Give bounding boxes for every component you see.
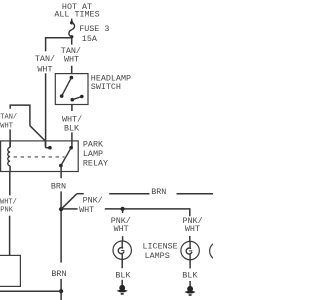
- label HEADLAMP SWITCH: [91, 73, 131, 92]
- label TAN/WHT left branch: [35, 54, 55, 74]
- fuse F3 symbol: [69, 21, 75, 38]
- label PNK/WHT feeder: [79, 196, 103, 215]
- wire BRN diagonal riser: [61, 194, 77, 210]
- svg-text:BLK: BLK: [115, 270, 131, 280]
- wire fuse to headlamp switch: [71, 38, 73, 74]
- wire bottom bus: [0, 290, 61, 292]
- label PARK LAMP RELAY: [83, 140, 108, 169]
- wire diagonal TAN/WHT to relay junction: [30, 126, 45, 141]
- svg-text:LICENSE: LICENSE: [143, 241, 178, 251]
- svg-text:WHT: WHT: [185, 224, 200, 234]
- wire PNK/WHT feeder: [63, 209, 190, 242]
- relay contact A from TAN/WHT: [45, 141, 51, 150]
- wire left lamp to ground BLK: [121, 259, 123, 268]
- node BRN junction: [59, 207, 63, 211]
- svg-text:BRN: BRN: [51, 269, 66, 279]
- label LICENSE LAMPS: [143, 241, 178, 261]
- wire BRN bus: [77, 193, 213, 195]
- label HOT AT ALL TIMES: [54, 2, 99, 20]
- connector box bottom left: [0, 255, 20, 286]
- svg-text:WHT: WHT: [64, 54, 79, 64]
- svg-text:WHT: WHT: [114, 224, 129, 234]
- label PNK/WHT left lamp: [111, 216, 131, 234]
- wire right lamp to ground BLK: [189, 260, 191, 269]
- headlamp switch box: [55, 74, 88, 105]
- wire coil output WHT/PNK: [9, 172, 11, 256]
- svg-text:TAN/: TAN/: [35, 54, 55, 64]
- svg-text:15A: 15A: [82, 34, 98, 44]
- svg-text:WHT/: WHT/: [0, 199, 17, 207]
- park lamp relay box: [1, 141, 79, 172]
- svg-text:WHT: WHT: [0, 123, 13, 131]
- node bottom junction: [59, 289, 63, 293]
- wire left lamp drop: [122, 209, 124, 241]
- svg-text:BRN: BRN: [151, 187, 166, 197]
- wire left TAN/WHT vertical lower: [45, 73, 47, 146]
- relay link dashed: [14, 156, 65, 158]
- wire branch horizontal from fuse: [45, 37, 72, 39]
- wire switch output WHT/BLK: [71, 105, 73, 148]
- ground G2: [184, 281, 195, 296]
- wire relay output BRN vertical: [60, 166, 62, 300]
- svg-text:RELAY: RELAY: [83, 159, 108, 169]
- label WHT/BLK: [62, 115, 82, 134]
- svg-text:WHT: WHT: [79, 205, 94, 215]
- lamp L3 (cut off at right edge): [210, 242, 228, 260]
- wire feed stub above fuse: [71, 19, 73, 23]
- svg-text:FUSE 3: FUSE 3: [79, 24, 109, 34]
- relay coil: [8, 141, 10, 172]
- label TAN/WHT coil feed at edge: [0, 114, 17, 131]
- headlamp switch contacts and arms: [60, 76, 84, 102]
- svg-text:ALL TIMES: ALL TIMES: [54, 10, 99, 20]
- svg-text:BLK: BLK: [182, 270, 198, 280]
- label TAN/WHT center: [61, 46, 81, 64]
- svg-text:BRN: BRN: [51, 182, 66, 192]
- svg-text:TAN/: TAN/: [0, 114, 17, 122]
- relay armature: [59, 148, 71, 168]
- svg-text:BLK: BLK: [64, 123, 80, 133]
- wire coil feed branch (corner path): [10, 105, 30, 147]
- svg-text:LAMPS: LAMPS: [145, 251, 170, 261]
- wire left TAN/WHT vertical upper: [45, 38, 47, 52]
- label WHT/PNK: [0, 199, 17, 215]
- ground G1: [117, 280, 128, 295]
- node left lamp junction: [121, 207, 125, 211]
- label PNK/WHT right lamp: [183, 216, 203, 234]
- lamp L2 (right license lamp): [181, 241, 199, 259]
- lamp L1 (left license lamp): [113, 241, 131, 259]
- svg-text:PNK: PNK: [0, 207, 13, 215]
- svg-text:WHT: WHT: [37, 64, 52, 74]
- svg-text:SWITCH: SWITCH: [91, 82, 121, 92]
- relay contact B dot: [69, 146, 73, 150]
